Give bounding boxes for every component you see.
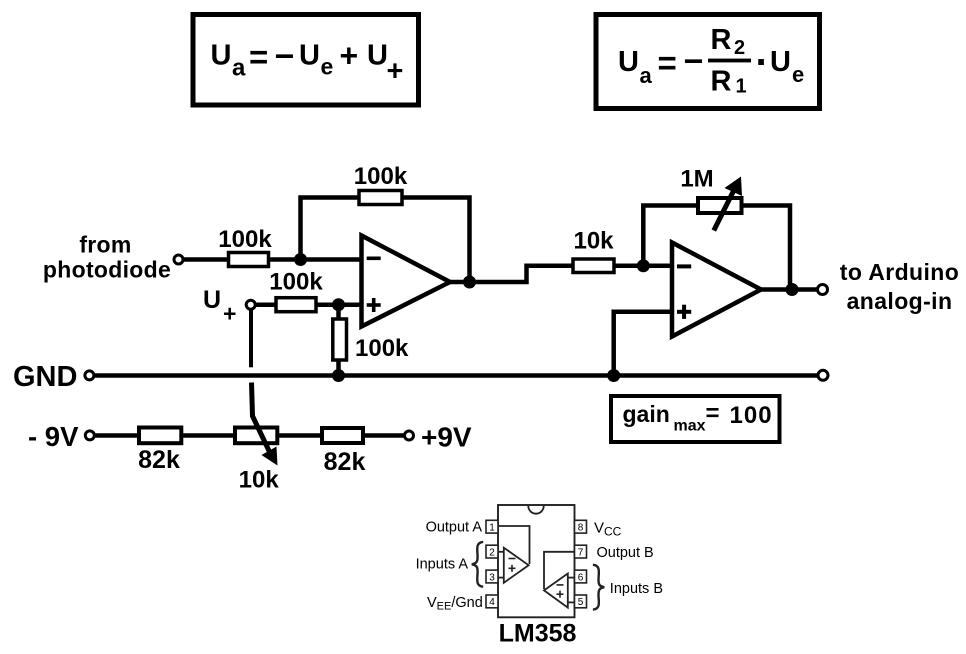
svg-text:to Arduino: to Arduino: [840, 259, 959, 285]
pin 4: [486, 595, 498, 608]
wire node to R4: [336, 305, 341, 376]
wire U2 output: [761, 287, 818, 292]
svg-text:7: 7: [578, 547, 584, 558]
wire U+ to wiper (above GND): [249, 309, 253, 367]
resistor R5 10k: [573, 259, 614, 273]
label: to Arduino analog-in: [840, 259, 959, 314]
svg-text:U: U: [367, 40, 388, 72]
op-amp U1: [362, 236, 451, 327]
svg-text:analog-in: analog-in: [847, 288, 953, 314]
U+ terminal: [246, 300, 255, 309]
svg-text:gain: gain: [623, 401, 670, 427]
pin 5: [575, 595, 587, 608]
wire pin1 to op-amp A output: [498, 526, 530, 564]
resistor R7 82k: [322, 428, 363, 443]
wire input to R1: [183, 257, 362, 262]
svg-text:3: 3: [489, 572, 495, 583]
svg-text:max: max: [674, 418, 706, 435]
svg-text:U: U: [618, 46, 639, 78]
svg-text:e: e: [792, 62, 804, 87]
svg-text:a: a: [232, 55, 246, 82]
wiper arrowhead P1: [262, 447, 278, 466]
wire U2 noninverting input to GND: [614, 312, 672, 376]
svg-text:10k: 10k: [239, 467, 280, 494]
op-amp B inside IC: [544, 574, 568, 608]
svg-text:100k: 100k: [355, 335, 409, 362]
svg-text:Output B: Output B: [597, 545, 654, 561]
svg-text:·: ·: [756, 41, 769, 85]
gain box: [611, 396, 780, 442]
svg-text:e: e: [321, 54, 334, 80]
wire U1 output to R5: [450, 266, 573, 282]
svg-text:+: +: [387, 56, 404, 88]
svg-text:8: 8: [578, 523, 584, 534]
svg-text:1: 1: [489, 523, 495, 534]
wire pin2 stub: [498, 551, 505, 553]
wire R5 to U2 inverting input: [614, 264, 672, 269]
svg-text:VEE/Gnd: VEE/Gnd: [427, 595, 483, 613]
svg-text:+: +: [340, 38, 359, 74]
svg-text:4: 4: [489, 597, 495, 608]
wire -9V rail: [94, 433, 405, 438]
resistor R6 82k: [139, 428, 181, 444]
resistor R1 100k: [229, 253, 269, 267]
wire feedback 2: [643, 206, 790, 290]
resistor R2 100k (feedback of U1): [359, 191, 402, 205]
pin 1: [486, 520, 498, 533]
svg-text:=: =: [658, 44, 677, 81]
svg-text:+: +: [223, 301, 236, 327]
op-amp U2: [672, 243, 761, 337]
svg-text:100k: 100k: [218, 226, 272, 253]
svg-text:R: R: [711, 24, 732, 56]
node at inverting input of U1: [294, 253, 307, 266]
label: from photodiode: [43, 231, 171, 282]
formula box 2: Ua = -R2/R1 * Ue: [596, 15, 820, 109]
pin 7: [575, 545, 587, 558]
pin 3: [486, 570, 498, 583]
svg-text:82k: 82k: [138, 446, 180, 474]
svg-text:−: −: [684, 42, 704, 80]
potentiometer P2 1M (feedback of U2): [698, 177, 742, 231]
node GND / R4: [332, 369, 345, 382]
potentiometer P1 10k: [235, 428, 277, 444]
input terminal: [174, 255, 183, 264]
svg-text:=: =: [249, 39, 268, 76]
IC LM358 body: [498, 505, 575, 617]
GND right terminal: [818, 370, 828, 380]
svg-text:- 9V: - 9V: [28, 421, 79, 452]
svg-text:from: from: [79, 231, 131, 257]
node GND / U2 noninverting: [607, 369, 620, 382]
svg-text:Inputs B: Inputs B: [610, 581, 663, 597]
svg-text:6: 6: [578, 572, 584, 583]
pin 2: [486, 545, 498, 558]
+9V terminal: [405, 431, 414, 440]
wire pin3 stub: [498, 577, 505, 579]
node at noninverting input of U1: [332, 298, 345, 311]
svg-text:R: R: [711, 65, 732, 97]
-9V terminal: [85, 431, 94, 440]
svg-text:VCC: VCC: [594, 520, 622, 539]
svg-text:+9V: +9V: [421, 422, 472, 453]
svg-text:2: 2: [734, 37, 745, 59]
brace pins 2-3: [472, 542, 483, 587]
svg-text:5: 5: [578, 597, 584, 608]
svg-text:GND: GND: [13, 361, 77, 393]
svg-text:photodiode: photodiode: [43, 257, 171, 283]
pin 6: [575, 570, 587, 583]
node at output of U2: [786, 283, 799, 296]
svg-text:=: =: [706, 400, 720, 427]
svg-text:100: 100: [730, 402, 773, 429]
svg-text:100k: 100k: [269, 269, 323, 296]
node at output of U1: [463, 276, 476, 289]
svg-text:82k: 82k: [324, 448, 366, 476]
GND rail: [94, 373, 818, 378]
svg-text:LM358: LM358: [499, 620, 577, 648]
svg-text:−: −: [275, 38, 295, 76]
svg-text:1: 1: [736, 76, 747, 98]
svg-text:10k: 10k: [573, 228, 614, 255]
node at inverting input of U2: [637, 259, 650, 272]
wire feedback 1: [301, 198, 470, 283]
wire pin6 stub: [568, 577, 575, 579]
svg-text:Output A: Output A: [426, 520, 483, 536]
resistor R3 100k (U+): [276, 298, 316, 312]
svg-text:U: U: [211, 40, 232, 72]
svg-text:2: 2: [489, 547, 495, 558]
wire pin5 stub: [568, 601, 575, 603]
pin 8: [575, 520, 587, 533]
GND left terminal: [85, 371, 94, 380]
wire pin7 to op-amp B output: [544, 552, 575, 589]
resistor R4 100k (to GND): [333, 319, 347, 360]
svg-text:Inputs A: Inputs A: [416, 557, 469, 573]
wire U+ to noninverting input: [255, 302, 362, 307]
wire wiper of P1 (below GND): [252, 383, 272, 456]
output terminal: [818, 285, 828, 295]
brace pins 6-5: [593, 565, 604, 610]
svg-text:1M: 1M: [680, 166, 713, 193]
svg-text:U: U: [770, 46, 791, 78]
svg-text:a: a: [640, 63, 653, 88]
svg-text:100k: 100k: [354, 163, 408, 190]
svg-text:U: U: [203, 286, 221, 314]
formula box 1: Ua = -Ue + U+: [193, 15, 419, 106]
svg-text:U: U: [299, 40, 320, 72]
op-amp A inside IC: [504, 548, 529, 583]
